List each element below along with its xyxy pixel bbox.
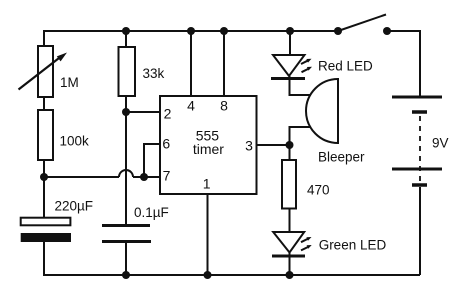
svg-text:3: 3 (245, 138, 253, 154)
svg-text:8: 8 (220, 98, 228, 114)
svg-text:6: 6 (162, 136, 170, 152)
svg-text:1M: 1M (60, 75, 79, 90)
svg-text:Bleeper: Bleeper (318, 150, 365, 165)
svg-text:timer: timer (193, 141, 224, 157)
svg-text:100k: 100k (60, 134, 90, 149)
svg-text:9V: 9V (432, 136, 449, 151)
svg-text:220µF: 220µF (55, 199, 94, 214)
svg-text:2: 2 (164, 106, 172, 122)
svg-text:33k: 33k (143, 66, 165, 81)
svg-text:7: 7 (163, 167, 171, 183)
svg-text:0.1µF: 0.1µF (134, 205, 169, 220)
svg-text:Red LED: Red LED (318, 59, 373, 74)
svg-text:470: 470 (307, 183, 330, 198)
svg-text:1: 1 (203, 176, 211, 192)
svg-text:Green LED: Green LED (319, 238, 387, 253)
svg-text:4: 4 (187, 98, 195, 114)
